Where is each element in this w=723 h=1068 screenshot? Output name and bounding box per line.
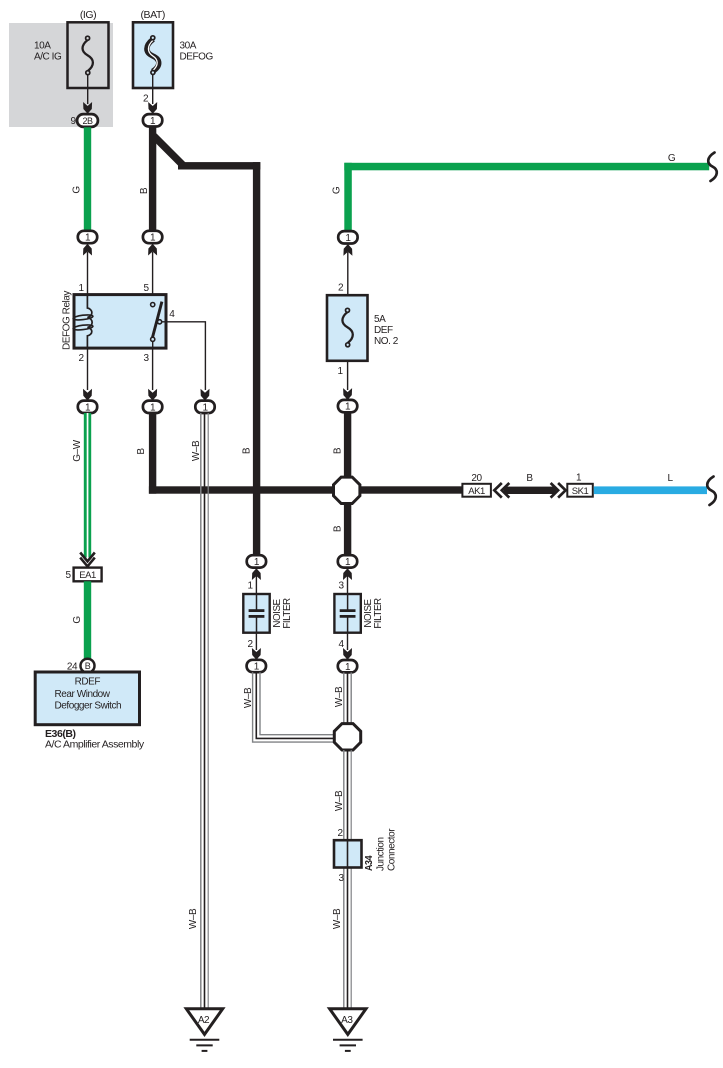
svg-text:3: 3 [338, 581, 344, 592]
svg-text:(BAT): (BAT) [141, 9, 165, 21]
svg-text:G: G [668, 153, 676, 164]
svg-text:G: G [72, 616, 83, 624]
relay switch (pins 5-3-4) [151, 302, 162, 349]
svg-text:B: B [526, 473, 533, 484]
svg-text:1: 1 [576, 473, 582, 484]
svg-text:Defogger Switch: Defogger Switch [55, 701, 122, 712]
splice chevrons above EA1 [80, 553, 95, 567]
wire to 5A fuse pin 2 [347, 252, 349, 295]
svg-text:A34: A34 [364, 855, 375, 871]
svg-text:4: 4 [169, 309, 175, 320]
connector (B) round [81, 659, 95, 673]
arrow into connector [148, 102, 157, 114]
fuse F1 10A A/C IG box [68, 22, 109, 88]
wire W-B center line through A34 [347, 750, 349, 1009]
svg-text:W–B: W–B [334, 790, 345, 811]
arrow into connector (pin3) [148, 389, 157, 401]
svg-text:G: G [72, 186, 83, 194]
svg-text:SK1: SK1 [572, 486, 589, 497]
svg-text:G–W: G–W [72, 439, 83, 461]
svg-text:1: 1 [337, 366, 343, 377]
junction J2 (octagon) [334, 724, 360, 750]
arrow up into connector [252, 568, 261, 580]
junction block J/B panel (gray) [9, 23, 113, 127]
noise filter N1 box [243, 594, 269, 633]
wire fuse F2 pin 2 down [152, 75, 154, 105]
svg-text:W–B: W–B [188, 908, 199, 929]
fuse F3 5A DEF NO.2 box [327, 295, 368, 361]
fuse F2 30A DEFOG box [133, 22, 173, 88]
junction connector A34 box [334, 840, 362, 867]
connector 1 below relay pin 3 [143, 401, 162, 414]
wire G (green) vertical drop [344, 163, 352, 232]
svg-text:FILTER: FILTER [282, 598, 293, 629]
wire noise filter pin 2 down [255, 633, 257, 650]
svg-text:4: 4 [338, 639, 344, 650]
noise filter N2 box [334, 594, 360, 633]
connector AK1 [462, 484, 491, 497]
svg-text:DEF: DEF [374, 325, 393, 336]
svg-text:2: 2 [247, 639, 253, 650]
wire W-B from right noise filter down to junction J2 [344, 672, 351, 723]
svg-text:B: B [333, 447, 344, 454]
wire G (green) top right horizontal [344, 163, 709, 171]
continuation break symbol (L wire) [707, 477, 716, 506]
connector SK1 [567, 484, 593, 497]
arrow up into connector [148, 244, 157, 256]
fuse F3 symbol [342, 308, 352, 347]
svg-text:A/C IG: A/C IG [34, 52, 62, 63]
wire branch diagonal [154, 136, 184, 166]
svg-text:(IG): (IG) [80, 9, 96, 21]
svg-text:L: L [667, 473, 673, 484]
wire to relay pin 5 [152, 252, 154, 303]
connector EA1 [74, 568, 102, 582]
chevrons male-female (left pair) [494, 483, 509, 498]
svg-text:3: 3 [143, 353, 149, 364]
svg-text:W–B: W–B [191, 440, 202, 461]
connector 1 (to 5A DEF fuse) [338, 231, 357, 244]
connector 1 (left, green column) [78, 231, 97, 244]
arrow into connector (pin2) [83, 389, 92, 401]
ground A2 [186, 1009, 222, 1051]
ground A3 [330, 1009, 366, 1051]
wire W-B from relay pin 4 connector down to ground A2 [201, 413, 208, 1009]
wire G-W (green w/ white stripe) [84, 413, 91, 558]
svg-text:2B: 2B [82, 116, 93, 126]
svg-text:Connector: Connector [387, 828, 398, 871]
wire W-B from left noise filter to junction J2 (corner) [253, 672, 335, 742]
svg-text:2: 2 [143, 94, 149, 105]
svg-text:B: B [85, 661, 91, 671]
svg-text:Junction: Junction [376, 837, 387, 871]
svg-text:B: B [139, 187, 150, 194]
arrow into connector 2B [83, 102, 92, 114]
svg-text:5: 5 [143, 283, 149, 294]
wire B vertical from relay pin3 connector to corner [149, 413, 156, 494]
wire branch horizontal to x257 [178, 162, 260, 169]
wire relay pin 4 [162, 322, 206, 390]
connector 1 below left noise filter [247, 660, 266, 673]
connector 2B [77, 114, 98, 127]
svg-text:RDEF: RDEF [75, 677, 101, 688]
svg-text:DEFOG Relay: DEFOG Relay [62, 291, 73, 350]
wire to relay pin 1 [87, 252, 89, 295]
wire B horizontal junction J1 to AK1 [360, 486, 464, 493]
svg-text:A2: A2 [198, 1015, 210, 1026]
arrow into connector [252, 648, 261, 660]
connector 1 below 30A fuse [143, 114, 162, 127]
wire B horizontal to junction J1 [149, 486, 335, 493]
wire B between connectors [504, 487, 556, 494]
svg-text:EA1: EA1 [79, 570, 96, 581]
chevrons male-female (right pair) [551, 483, 566, 498]
svg-text:B: B [333, 525, 344, 532]
wire to noise filter pin 1 [255, 576, 257, 594]
junction J1 (octagon) [334, 477, 360, 503]
connector 1 below 5A fuse [338, 400, 357, 413]
arrow up into connector [343, 244, 352, 256]
fuse F1 symbol [83, 36, 93, 74]
wire B vertical x257 down to noise filter connector [253, 162, 260, 555]
svg-text:2: 2 [337, 828, 343, 839]
svg-text:2: 2 [78, 353, 84, 364]
svg-text:FILTER: FILTER [373, 598, 384, 629]
svg-text:B: B [242, 447, 253, 454]
arrow into connector [343, 648, 352, 660]
arrow into connector [343, 388, 352, 400]
connector 1 above left noise filter [247, 555, 266, 568]
wire fuse F1 pin to connector 2B [87, 75, 89, 104]
svg-text:3: 3 [338, 873, 344, 884]
svg-text:G: G [332, 186, 343, 194]
wire relay pin 3 down [152, 348, 154, 390]
wire relay pin 2 down [87, 348, 89, 390]
svg-text:10A: 10A [34, 41, 51, 52]
svg-text:AK1: AK1 [468, 486, 485, 497]
arrow into connector (pin4) [201, 389, 210, 401]
svg-text:Rear Window: Rear Window [55, 689, 111, 700]
wire noise filter pin 4 down [347, 633, 349, 650]
svg-text:W–B: W–B [332, 908, 343, 929]
connector 1 below relay pin 4 [195, 401, 214, 414]
wire W-B below junction J2 to ground A3 [344, 750, 351, 1009]
wire G (green) below EA1 [84, 581, 91, 659]
wire fuse F3 pin 1 down [347, 361, 349, 390]
connector 1 above right noise filter [338, 555, 357, 568]
svg-text:B: B [136, 448, 147, 455]
relay coil (pins 1-2) [73, 295, 93, 349]
svg-text:2: 2 [338, 283, 344, 294]
svg-text:W–B: W–B [243, 687, 254, 708]
arrow up into connector [343, 568, 352, 580]
svg-text:W–B: W–B [334, 686, 345, 707]
svg-text:A3: A3 [341, 1015, 353, 1026]
connector 1 below relay pin 2 [78, 401, 97, 414]
svg-text:9: 9 [70, 116, 76, 127]
wire to noise filter pin 3 [347, 576, 349, 594]
svg-text:5: 5 [65, 570, 71, 581]
svg-text:20: 20 [471, 473, 482, 484]
continuation break symbol (green wire) [708, 153, 717, 182]
ECU RDEF Rear Window Defogger Switch box [35, 672, 139, 725]
svg-text:30A: 30A [180, 41, 197, 52]
fuse F2 symbol (fusible link) [147, 36, 159, 75]
svg-text:1: 1 [247, 581, 253, 592]
relay DEFOG Relay box [74, 295, 166, 349]
wire L (light blue) [594, 486, 707, 494]
connector 1 (middle, B column) [143, 231, 162, 244]
wire B thick from connector down [149, 127, 156, 231]
svg-text:1: 1 [78, 283, 84, 294]
svg-text:5A: 5A [374, 314, 386, 325]
arrow up into connector [83, 244, 92, 256]
svg-text:A/C Amplifier Assembly: A/C Amplifier Assembly [45, 739, 145, 751]
wire B below junction J1 [344, 504, 351, 556]
connector 1 below right noise filter [338, 660, 357, 673]
wire B thick to junction [344, 412, 351, 477]
svg-text:NO. 2: NO. 2 [374, 336, 399, 347]
wire G (green) from 2B down [84, 127, 91, 230]
svg-text:DEFOG: DEFOG [180, 52, 214, 63]
